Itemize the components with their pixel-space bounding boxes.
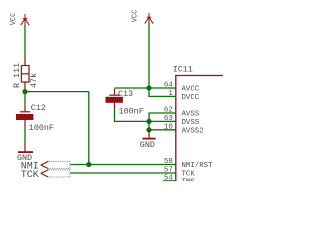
svg-text:DVSS: DVSS xyxy=(182,119,200,127)
svg-text:AVSS: AVSS xyxy=(182,111,200,119)
wire VCC1 to resistor R111 top xyxy=(24,26,26,58)
capacitor C13 xyxy=(106,89,122,110)
svg-text:AVCC: AVCC xyxy=(182,86,200,94)
wire C12 to GND1 xyxy=(24,127,26,144)
ground GND2 xyxy=(142,130,155,139)
svg-text:C12: C12 xyxy=(31,103,46,113)
pin stub row 56 xyxy=(163,180,176,182)
wire AVSS2 row (pin 10) xyxy=(149,129,176,131)
svg-text:1: 1 xyxy=(168,90,173,98)
vcc symbol VCC1 xyxy=(21,14,29,26)
wire junction to right corner xyxy=(25,91,89,93)
net flag NMI xyxy=(48,161,70,168)
svg-text:58: 58 xyxy=(164,158,173,166)
net flag TCK xyxy=(48,170,70,177)
svg-text:NMI/RST: NMI/RST xyxy=(182,162,214,170)
svg-text:TCK: TCK xyxy=(21,170,39,181)
svg-text:10: 10 xyxy=(164,124,173,132)
node junction AVCC row xyxy=(146,85,151,90)
node junction below R111 xyxy=(22,89,27,94)
svg-text:VCC: VCC xyxy=(10,13,18,26)
wire VCC2 down to AVCC node xyxy=(148,23,150,89)
wire AVSS row (pin 62) and GND trunk xyxy=(149,113,176,130)
svg-text:57: 57 xyxy=(164,167,173,175)
wire vertical down to NMI net xyxy=(88,92,90,165)
white crop band at bottom xyxy=(0,181,223,203)
svg-text:64: 64 xyxy=(164,82,173,90)
wire TCK net to pin 57 xyxy=(71,172,176,174)
svg-text:C13: C13 xyxy=(118,89,133,99)
svg-text:IC11: IC11 xyxy=(173,65,193,75)
wire junction down to C12 xyxy=(24,92,26,105)
wire NMI net to pin 58 xyxy=(71,164,176,166)
svg-text:GND: GND xyxy=(140,140,155,150)
wire AVCC row (pin 64) xyxy=(115,87,176,89)
capacitor C12 xyxy=(17,105,33,127)
svg-text:100nF: 100nF xyxy=(119,106,144,116)
svg-text:100nF: 100nF xyxy=(29,123,54,133)
node junction NMI row xyxy=(86,162,91,167)
resistor R111 xyxy=(21,57,29,92)
svg-text:AVSS2: AVSS2 xyxy=(182,127,204,135)
svg-text:62: 62 xyxy=(164,107,173,115)
svg-text:VCC: VCC xyxy=(132,10,140,23)
net flag NMI arrowhead xyxy=(41,161,49,168)
ground GND1 xyxy=(18,144,33,152)
node junction AVSS2 row xyxy=(146,127,151,132)
vcc symbol VCC2 xyxy=(145,13,153,25)
node junction DVSS row xyxy=(146,119,151,124)
op-amp/IC box IC11 (left and top edges) xyxy=(175,76,223,182)
svg-text:63: 63 xyxy=(164,115,173,123)
svg-text:DVCC: DVCC xyxy=(182,94,200,102)
svg-text:47k: 47k xyxy=(29,73,39,88)
svg-text:TCK: TCK xyxy=(182,171,196,179)
svg-text:R 111: R 111 xyxy=(12,63,22,88)
net flag TCK arrowhead xyxy=(41,170,49,177)
wire C13 bottom to DVSS row xyxy=(115,110,176,122)
wire VCC trunk to DVCC (pin 1) xyxy=(149,88,176,96)
